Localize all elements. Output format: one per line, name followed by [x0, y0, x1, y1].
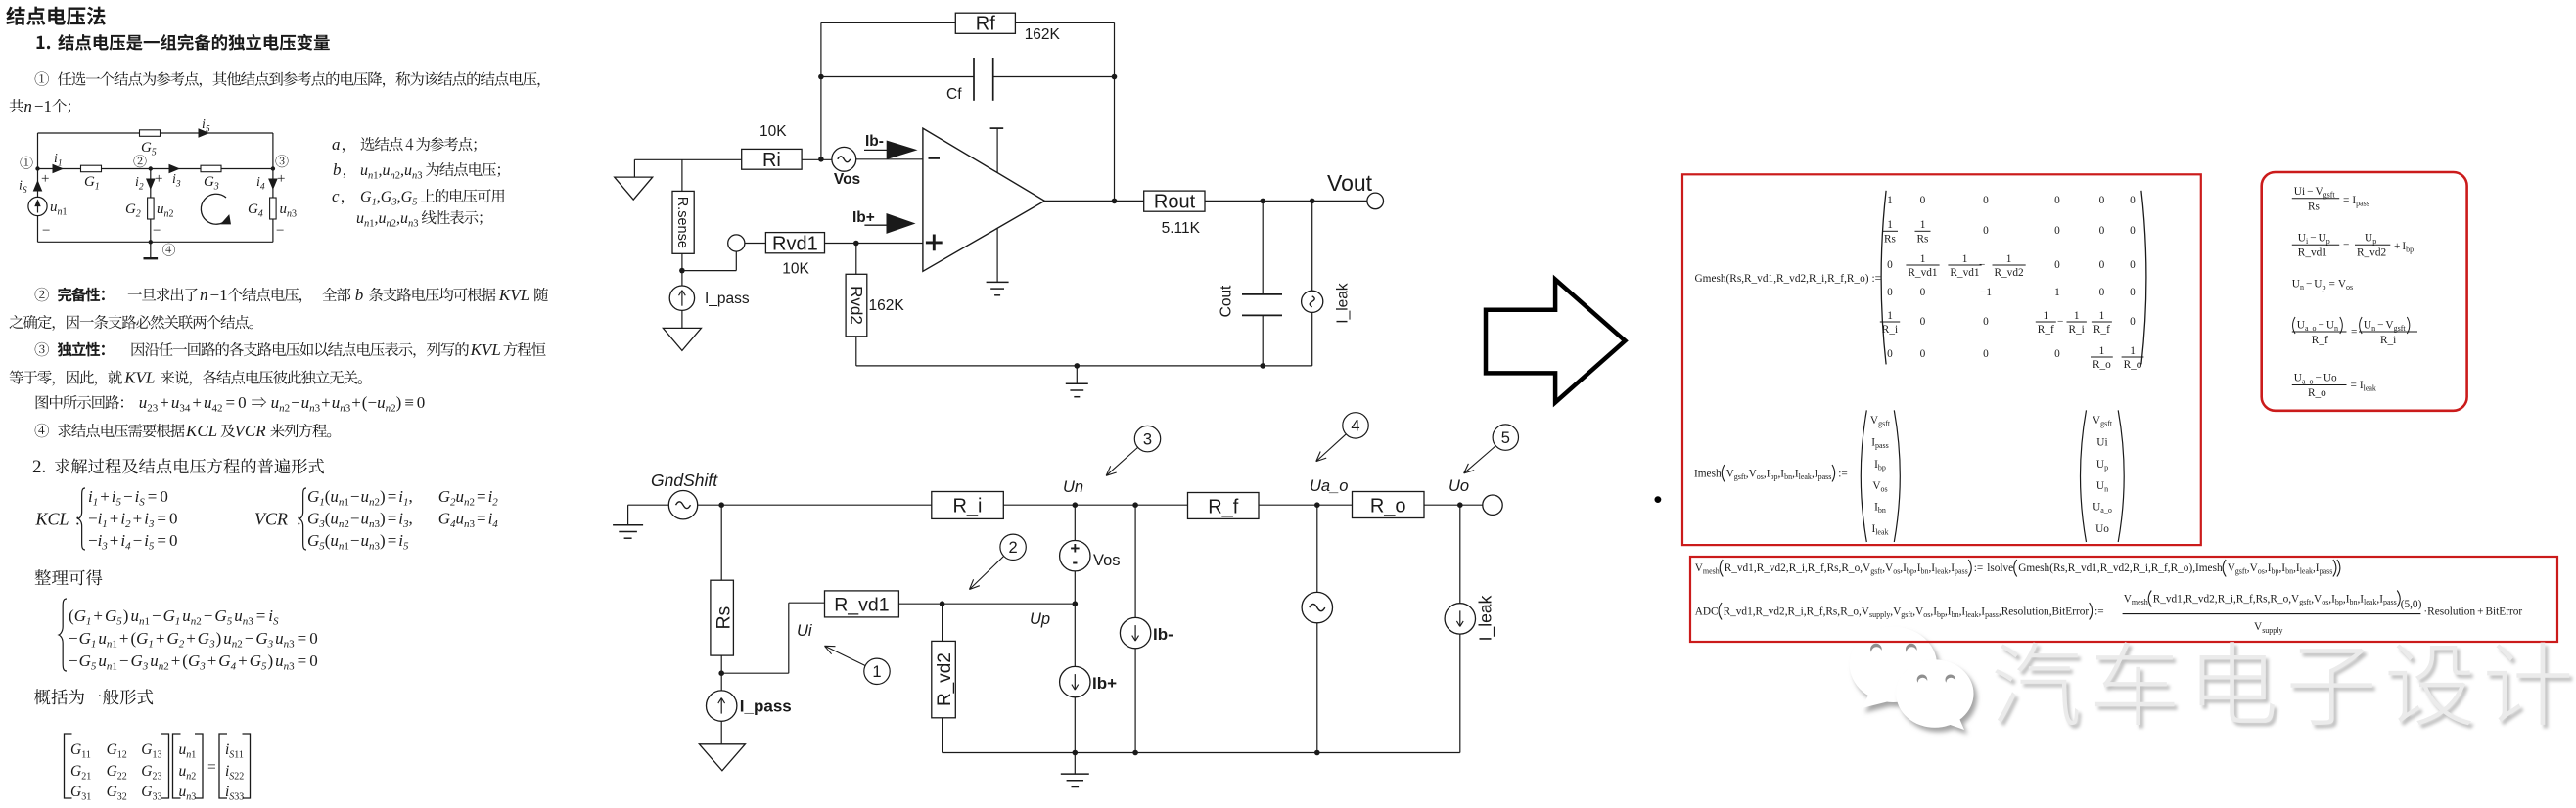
feedback top wire from Rf to output riser: [1015, 22, 1114, 23]
svg-text:u: u: [280, 202, 288, 217]
svg-text:2: 2: [237, 639, 243, 651]
svg-text:R_f: R_f: [2038, 324, 2054, 336]
svg-text:3: 3: [417, 171, 422, 182]
svg-text:0: 0: [169, 531, 178, 550]
svg-text:G: G: [214, 606, 226, 625]
capacitor Cf: [973, 58, 975, 101]
svg-text:−: −: [368, 393, 378, 412]
svg-text:R_vd2: R_vd2: [1756, 606, 1785, 617]
svg-text:3: 3: [148, 518, 155, 530]
svg-text:a_o: a_o: [2100, 506, 2112, 515]
svg-text:0: 0: [2130, 316, 2136, 328]
svg-text:0: 0: [2130, 195, 2136, 206]
svg-text:u: u: [150, 651, 159, 670]
svg-text:=: =: [207, 759, 216, 776]
svg-text:31: 31: [81, 792, 91, 803]
svg-text:4: 4: [258, 209, 263, 220]
svg-text:=: =: [298, 651, 307, 670]
resistor R_vd2: [942, 604, 943, 641]
svg-text:5: 5: [149, 541, 155, 553]
svg-text:os: os: [2258, 567, 2265, 576]
svg-text:leak: leak: [2300, 567, 2313, 576]
svg-text:G: G: [74, 606, 86, 625]
example circuit top wire with G5: [38, 132, 140, 134]
op-amp positive supply pin: [990, 127, 1004, 129]
svg-text:R_vd1: R_vd1: [1744, 273, 1773, 285]
svg-text:Resolution: Resolution: [2001, 606, 2049, 617]
svg-text:R_i: R_i: [2069, 324, 2085, 336]
capacitor Cout: [1262, 201, 1264, 294]
wire I_pass to ground: [681, 310, 683, 328]
svg-text:0: 0: [417, 393, 426, 412]
svg-text:33: 33: [153, 792, 162, 803]
resistor Ri 10K: [742, 149, 802, 169]
resistor G1: [81, 165, 102, 172]
svg-text:−: −: [350, 531, 360, 550]
svg-text:BitError: BitError: [2052, 606, 2090, 617]
svg-text:−: −: [350, 487, 360, 506]
wire input to Ri: [634, 158, 741, 160]
svg-text:U: U: [2096, 480, 2104, 492]
svg-text:U: U: [2314, 279, 2322, 291]
svg-text:Rs: Rs: [1827, 562, 1839, 574]
svg-text:bp: bp: [2272, 567, 2279, 576]
svg-text:I_pass: I_pass: [705, 291, 750, 307]
svg-text:=: =: [2329, 279, 2335, 291]
bottom rail wire: [856, 365, 1312, 367]
svg-text:2: 2: [191, 772, 196, 783]
top rail from GndShift to R_i: [698, 504, 932, 506]
current i4 arrow: [269, 179, 277, 189]
branch G2 resistor: [150, 169, 152, 199]
svg-text:u: u: [139, 393, 148, 412]
svg-text:0: 0: [1983, 225, 1989, 237]
svg-text:b: b: [333, 160, 342, 179]
svg-text:23: 23: [153, 772, 162, 783]
svg-text:u: u: [271, 393, 280, 412]
svg-text:Ui: Ui: [2096, 437, 2107, 449]
svg-text:u: u: [456, 487, 465, 506]
wire node to input terminal: [682, 270, 736, 272]
svg-text:leak: leak: [1875, 528, 1888, 537]
wire jog up to R_vd1: [721, 672, 789, 674]
svg-text:gsft: gsft: [1901, 610, 1913, 619]
svg-text:u: u: [50, 200, 58, 215]
svg-text:3: 3: [289, 661, 295, 673]
svg-text:pass: pass: [2383, 598, 2397, 606]
svg-text:3: 3: [1143, 430, 1152, 448]
resistor Rvd1 10K: [765, 233, 824, 253]
paragraph ② 完备性: [35, 288, 49, 301]
svg-text:3: 3: [101, 541, 108, 553]
svg-text:+: +: [133, 510, 143, 528]
svg-text:+: +: [119, 629, 129, 648]
svg-text:BitError: BitError: [2486, 606, 2523, 617]
output terminal circle: [1483, 495, 1502, 515]
svg-text:bn: bn: [1784, 472, 1792, 481]
svg-text:−: −: [69, 629, 78, 648]
svg-text:bp: bp: [1937, 610, 1945, 619]
junction below R.sense: [679, 268, 685, 274]
svg-text:a_o: a_o: [2305, 324, 2317, 333]
svg-text:1: 1: [2099, 310, 2105, 322]
svg-text:0: 0: [2054, 195, 2060, 206]
svg-text:4: 4: [260, 183, 265, 193]
svg-text:u: u: [404, 162, 412, 179]
svg-text:): ): [216, 629, 222, 648]
svg-text:3: 3: [175, 180, 181, 190]
svg-text:U: U: [2365, 232, 2372, 244]
svg-text:Imesh: Imesh: [1694, 468, 1722, 479]
svg-text:162K: 162K: [869, 297, 905, 314]
svg-text:u: u: [98, 629, 107, 648]
svg-text:u: u: [361, 487, 370, 506]
svg-text:bn: bn: [2350, 598, 2358, 606]
svg-text:u: u: [131, 606, 140, 625]
svg-text:3: 3: [248, 616, 253, 628]
node Ua_o: [1314, 502, 1320, 508]
junction Cf right: [1112, 74, 1118, 80]
svg-text:1: 1: [191, 750, 196, 761]
current i2 arrow: [147, 179, 155, 189]
svg-text:3: 3: [289, 639, 295, 651]
svg-text:leak: leak: [1935, 567, 1948, 576]
svg-text:G: G: [381, 189, 392, 205]
svg-text:=: =: [157, 531, 166, 550]
svg-text:+: +: [100, 487, 110, 506]
wire Rout to Vout: [1205, 200, 1367, 202]
svg-text:G: G: [204, 174, 214, 190]
svg-text:u: u: [330, 487, 339, 506]
svg-text:=: =: [388, 531, 397, 550]
svg-text:G: G: [307, 531, 319, 550]
svg-text:0: 0: [2099, 195, 2105, 206]
svg-text:R_i: R_i: [2133, 562, 2148, 574]
svg-text:Up: Up: [1030, 610, 1050, 628]
svg-text:5.11K: 5.11K: [1162, 220, 1201, 237]
svg-text:G: G: [70, 784, 81, 800]
ground at node 4: [150, 242, 152, 257]
svg-text:1: 1: [93, 497, 99, 509]
svg-text:−: −: [2377, 319, 2383, 331]
svg-text:1: 1: [91, 639, 97, 651]
svg-text:U: U: [2093, 502, 2100, 514]
node Uo: [1457, 502, 1463, 508]
svg-text:gsft: gsft: [2323, 191, 2336, 200]
svg-text:R_i: R_i: [2380, 335, 2396, 346]
svg-text:Ib+: Ib+: [852, 209, 875, 226]
svg-text:Vout: Vout: [1327, 170, 1373, 196]
svg-text:bn: bn: [2285, 567, 2293, 576]
svg-text:+: +: [2394, 241, 2400, 252]
svg-text:G: G: [141, 741, 152, 758]
resistor R_o: [1353, 492, 1425, 518]
svg-text:u: u: [356, 210, 364, 227]
ground at bottom rail: [1074, 753, 1076, 775]
feedback left riser wire: [820, 22, 822, 158]
node 1 label: [21, 157, 33, 169]
svg-text:=: =: [2351, 327, 2357, 338]
svg-text:+: +: [171, 651, 181, 670]
callout 4 pointing at Ua_o: [1343, 413, 1368, 438]
svg-text:G: G: [360, 189, 372, 205]
svg-text:I_pass: I_pass: [740, 697, 792, 716]
wire R_f to Ua_o node: [1259, 504, 1353, 506]
node Un: [1073, 502, 1079, 508]
svg-text:): ): [380, 531, 386, 550]
svg-text:2.: 2.: [32, 457, 51, 477]
wire R_i to Un node: [1003, 504, 1075, 506]
svg-text:u: u: [275, 629, 284, 648]
node 3 label: [276, 155, 289, 167]
svg-text:bp: bp: [1878, 464, 1886, 472]
svg-text:2: 2: [139, 183, 144, 193]
matrix equation G u = i: [65, 734, 72, 798]
svg-text:G: G: [84, 174, 95, 190]
svg-text:GndShift: GndShift: [651, 471, 718, 490]
equation (Uao-Un)/Rf = (Un-Vgsft)/Ri: [2292, 331, 2347, 333]
svg-text:22: 22: [234, 772, 244, 783]
callout 3 pointing at Un: [1134, 426, 1160, 451]
svg-text:G: G: [248, 202, 258, 217]
svg-text:0: 0: [1983, 195, 1989, 206]
svg-text:1: 1: [2006, 253, 2012, 265]
offset source Vos lower circuit: [1074, 505, 1076, 540]
junction I_pass node: [718, 670, 724, 676]
svg-text:3: 3: [345, 403, 351, 415]
paragraph ① 任选一个结点为参考点: [35, 71, 49, 85]
svg-text:Gmesh(: Gmesh(: [2018, 562, 2053, 574]
svg-text:): ): [1865, 273, 1869, 285]
svg-text:u: u: [223, 629, 232, 648]
junction Up node: [1073, 601, 1079, 606]
svg-text:−: −: [2057, 316, 2063, 328]
svg-text:=: =: [388, 510, 397, 528]
svg-text:0: 0: [169, 510, 178, 528]
svg-text:1: 1: [1887, 310, 1893, 322]
wire GndShift to ground: [628, 504, 669, 506]
svg-text:Rs: Rs: [1729, 273, 1741, 285]
svg-text:Cout: Cout: [1218, 285, 1234, 317]
junction feedback-input node: [818, 157, 824, 162]
svg-text:R_f: R_f: [1827, 273, 1844, 285]
svg-text:pass: pass: [2320, 567, 2333, 576]
branch to R.sense: [681, 159, 683, 191]
output riser wire: [1114, 22, 1116, 201]
svg-text:): ): [380, 487, 386, 506]
svg-text:4: 4: [492, 518, 498, 530]
svg-text:−: −: [204, 606, 213, 625]
svg-text:Cf: Cf: [946, 86, 962, 103]
svg-text:u: u: [360, 162, 368, 179]
wire Vos to op-amp inverting input: [856, 158, 923, 160]
wire Cf to output riser: [993, 76, 1115, 78]
op-amp negative supply pin with ground: [996, 228, 998, 282]
svg-text:Rs: Rs: [1917, 234, 1929, 246]
paragraph ③ 独立性: [35, 342, 49, 356]
svg-text:G: G: [141, 784, 152, 800]
current source I_leak lower circuit: [1459, 505, 1461, 604]
svg-text:−: −: [2310, 232, 2316, 244]
svg-text:0: 0: [1887, 259, 1893, 271]
svg-text:R_o: R_o: [1847, 273, 1865, 285]
svg-text:1: 1: [145, 616, 151, 628]
svg-text:23: 23: [147, 403, 159, 415]
svg-text:R_vd2: R_vd2: [1995, 267, 2024, 279]
svg-text:pass: pass: [1955, 567, 1968, 576]
svg-text:Ib-: Ib-: [1153, 625, 1173, 644]
svg-text:0: 0: [1920, 348, 1926, 360]
svg-text:bn: bn: [1878, 506, 1886, 515]
svg-text:R_vd1: R_vd1: [1725, 562, 1754, 574]
svg-text:u: u: [301, 393, 310, 412]
equation (Ui-Vgsft)/Rs = Ipass: [2292, 198, 2339, 200]
svg-text:−: −: [210, 286, 220, 304]
svg-text:34: 34: [179, 403, 191, 415]
svg-text:0: 0: [2054, 348, 2060, 360]
svg-text:−: −: [2316, 373, 2322, 384]
current source I_leak: [1311, 201, 1313, 291]
svg-text:VCR: VCR: [254, 510, 288, 529]
svg-text:pass: pass: [1818, 472, 1832, 481]
svg-text:G: G: [79, 651, 91, 670]
svg-text:Rs: Rs: [2256, 593, 2268, 605]
svg-text:KVL: KVL: [470, 340, 501, 359]
svg-text:+: +: [110, 510, 119, 528]
svg-text:R_vd2: R_vd2: [1757, 562, 1786, 574]
svg-text:Uo: Uo: [1449, 477, 1469, 495]
svg-text:leak: leak: [1799, 472, 1812, 481]
svg-text:n: n: [2334, 324, 2338, 333]
svg-text:+: +: [110, 531, 119, 550]
svg-text:u: u: [98, 651, 107, 670]
svg-text:S: S: [273, 616, 279, 628]
svg-text:R_vd1: R_vd1: [1908, 267, 1937, 279]
svg-text:u: u: [361, 531, 370, 550]
svg-text:−: −: [88, 531, 98, 550]
svg-text:G: G: [125, 202, 136, 217]
svg-text:Rvd2: Rvd2: [847, 286, 865, 325]
svg-text:−: −: [2307, 186, 2313, 198]
svg-text:+: +: [238, 651, 248, 670]
svg-text:u: u: [379, 210, 387, 227]
svg-text:gsft: gsft: [2100, 420, 2113, 428]
junction Ib- top: [1132, 502, 1138, 508]
svg-text:KVL: KVL: [498, 286, 529, 304]
svg-text::=: :=: [2094, 606, 2104, 617]
svg-text:11: 11: [81, 750, 91, 761]
svg-text:Rs: Rs: [2053, 562, 2065, 574]
branch G4 resistor: [272, 169, 274, 199]
svg-text:u: u: [361, 510, 370, 528]
svg-text:os: os: [2346, 283, 2353, 292]
svg-text:R_f: R_f: [1807, 606, 1823, 617]
svg-text:2: 2: [470, 497, 476, 509]
svg-text:−: −: [276, 223, 284, 239]
svg-text:n: n: [2371, 324, 2375, 333]
svg-text:mesh: mesh: [1703, 567, 1720, 576]
svg-text:Vos: Vos: [834, 171, 860, 188]
resistor R_vd1: [825, 591, 899, 617]
svg-text:1: 1: [95, 182, 100, 193]
wire terminal to Rvd1: [745, 243, 766, 245]
svg-text:−: −: [152, 606, 161, 625]
svg-text:R_o: R_o: [2093, 359, 2111, 371]
svg-text:Rs: Rs: [2308, 201, 2320, 212]
junction dots: [35, 166, 39, 170]
ground at GndShift: [613, 524, 643, 526]
svg-text:2: 2: [179, 639, 185, 651]
current source is: [37, 169, 39, 198]
svg-text:u: u: [377, 393, 386, 412]
svg-text:=: =: [388, 487, 397, 506]
svg-text:3: 3: [315, 403, 321, 415]
svg-text:0: 0: [1920, 316, 1926, 328]
svg-text:5: 5: [227, 616, 233, 628]
svg-text:S: S: [23, 186, 27, 196]
svg-text:0: 0: [2130, 287, 2136, 298]
svg-text:R_o: R_o: [1840, 606, 1859, 617]
watermark wechat logo: [1850, 627, 1937, 708]
svg-text:−: −: [69, 651, 78, 670]
svg-text:u: u: [330, 531, 339, 550]
svg-text:G: G: [307, 487, 319, 506]
svg-text:VCR: VCR: [235, 422, 267, 440]
svg-text:−: −: [42, 223, 50, 239]
svg-text:KVL: KVL: [123, 369, 155, 387]
svg-text:os: os: [1923, 610, 1930, 619]
svg-text:bn: bn: [1921, 567, 1929, 576]
current i3 arrow: [169, 164, 179, 172]
svg-text:1: 1: [1887, 195, 1893, 206]
wire R_vd1 to Up node: [898, 603, 1075, 605]
current source Ib-: [1134, 505, 1136, 617]
bottom wire: [38, 241, 273, 243]
svg-text:R.sense: R.sense: [674, 197, 690, 248]
svg-text:R_vd2: R_vd2: [2357, 247, 2386, 259]
svg-text:−: −: [2319, 319, 2324, 331]
svg-text:G: G: [131, 651, 143, 670]
svg-text:10K: 10K: [759, 123, 787, 140]
svg-text:Imesh: Imesh: [2195, 562, 2223, 574]
svg-text:5: 5: [1501, 429, 1510, 447]
svg-text:−: −: [123, 487, 133, 506]
svg-text:os: os: [1757, 472, 1764, 481]
svg-text:0: 0: [2130, 259, 2136, 271]
svg-text:R_f: R_f: [2093, 324, 2110, 336]
svg-text:pass: pass: [1985, 610, 1999, 619]
svg-text:R_f: R_f: [1208, 497, 1239, 518]
svg-text:1: 1: [2074, 310, 2080, 322]
svg-text:5: 5: [91, 661, 97, 673]
combined node equations: [59, 599, 67, 671]
svg-text:G: G: [107, 741, 117, 758]
Imesh vector: [1861, 410, 1866, 542]
svg-text:G: G: [107, 784, 117, 800]
svg-text:R_i: R_i: [952, 496, 982, 517]
svg-text:R_o: R_o: [2308, 387, 2326, 399]
svg-text:u: u: [383, 162, 391, 179]
svg-text:Ib-: Ib-: [865, 133, 884, 150]
svg-text:R_vd1: R_vd1: [2153, 593, 2183, 605]
svg-text:0: 0: [1920, 195, 1926, 206]
svg-text:=: =: [148, 487, 158, 506]
svg-text:bn: bn: [1952, 610, 1959, 619]
svg-text:G: G: [188, 651, 200, 670]
svg-text:0: 0: [2054, 259, 2060, 271]
svg-text:leak: leak: [2364, 598, 2376, 606]
svg-text:R_i: R_i: [1788, 606, 1804, 617]
